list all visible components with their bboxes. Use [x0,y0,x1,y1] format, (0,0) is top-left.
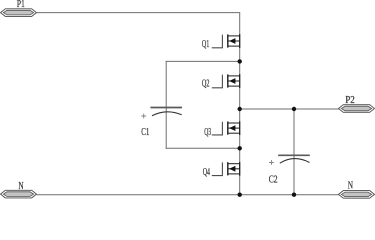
wire node B horizontal [166,147,240,149]
svg-text:C1: C1 [141,127,149,138]
transistor Q2 [202,74,240,90]
port N (bottom right) [339,181,375,199]
port P2 [339,95,375,112]
wire node A horizontal [166,60,240,62]
svg-text:Q3: Q3 [204,127,211,138]
node bottom-main junction dot [238,193,242,197]
node P2-tap junction dot [238,107,242,111]
svg-text:N: N [18,181,24,192]
port P1 [1,0,37,16]
svg-text:Q4: Q4 [203,167,211,178]
capacitor C2 [269,155,310,185]
wire bottom rail [37,194,339,196]
node B junction dot [238,146,242,150]
svg-text:P2: P2 [345,95,355,106]
svg-text:N: N [348,181,354,192]
wire P2 horizontal [240,108,339,110]
transistor Q4 [203,162,240,178]
node C2-bottom junction dot [292,193,296,197]
port N (bottom left) [1,181,37,198]
wire main vertical line [239,13,241,195]
svg-text:Q2: Q2 [202,79,210,90]
transistor Q1 [202,34,240,50]
capacitor C1 [141,108,182,139]
wire top rail P1 to main line [37,12,241,14]
wire C2 branch [293,109,295,195]
svg-text:P1: P1 [17,0,25,10]
transistor Q3 [204,121,240,138]
node A junction dot [238,59,242,63]
svg-text:C2: C2 [269,175,278,186]
svg-text:Q1: Q1 [202,39,209,50]
node C2-tap junction dot [292,107,296,111]
wire C1 branch [165,61,167,149]
